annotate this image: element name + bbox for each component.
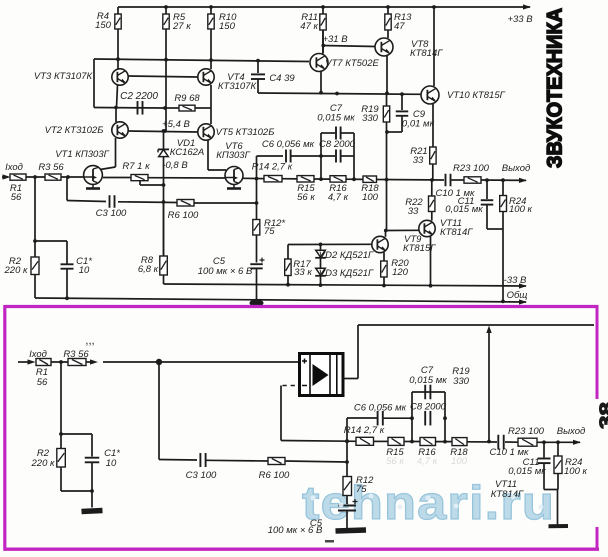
- node C2/VT2: [114, 106, 118, 110]
- capacitor C1: [61, 264, 74, 268]
- wire bus y93: [258, 93, 421, 94]
- ground VT1: [86, 185, 100, 189]
- svg-text:,,,: ,,,: [85, 335, 94, 347]
- svg-text:100 к: 100 к: [509, 204, 532, 215]
- svg-text:C2 2200: C2 2200: [120, 91, 158, 102]
- resistor R11: [322, 7, 324, 14]
- wire opamp output: [343, 378, 358, 380]
- svg-text:R14 2,7 к: R14 2,7 к: [252, 162, 293, 173]
- svg-text:56: 56: [37, 377, 48, 388]
- wire VT6 to R14: [243, 177, 264, 179]
- resistor R16: [330, 176, 346, 182]
- svg-text:C8 2000: C8 2000: [410, 402, 447, 413]
- node R24 bottom top: [556, 440, 560, 444]
- diode VD2: [320, 244, 322, 250]
- transistor VT1 jfet: [84, 166, 103, 185]
- svg-text:R6 100: R6 100: [168, 210, 199, 221]
- resistor R23: [464, 177, 481, 183]
- svg-text:100 мк × 6 В: 100 мк × 6 В: [268, 525, 323, 536]
- node R24 top: [501, 178, 505, 182]
- node R3/C3: [66, 175, 70, 179]
- resistor R14 bottom: [356, 437, 374, 445]
- wire R2 branch bottom: [60, 362, 62, 449]
- svg-text:56 к: 56 к: [297, 192, 315, 203]
- ground C5 bottom: [346, 511, 348, 529]
- capacitor C10: [446, 174, 451, 187]
- feedback arrow up: [486, 326, 491, 334]
- svg-text:0,01 мк: 0,01 мк: [402, 119, 435, 130]
- resistor R12: [253, 220, 260, 236]
- node VD1 junctions: [162, 129, 166, 133]
- resistor R4: [117, 7, 119, 14]
- svg-text:VT10 КТ815Г: VT10 КТ815Г: [447, 90, 506, 101]
- wire VT2-VT5 bus y131: [128, 131, 198, 132]
- wire VT5 emitter to VT6 gate: [207, 140, 209, 170]
- svg-text:Выход: Выход: [557, 426, 586, 437]
- svg-text:КТ814Г: КТ814Г: [410, 48, 443, 59]
- svg-text:Iход: Iход: [5, 162, 23, 173]
- wire feedback drop: [488, 331, 490, 442]
- wire C6 corner drop: [346, 418, 348, 477]
- svg-text:33: 33: [408, 206, 419, 217]
- svg-text:VT7 КТ502Е: VT7 КТ502Е: [325, 58, 379, 69]
- svg-text:C6 0,056 мк: C6 0,056 мк: [354, 403, 407, 414]
- node C11 top: [485, 178, 489, 182]
- wire feedback down: [158, 362, 160, 460]
- wire VT9 collector bus: [386, 180, 388, 231]
- resistor R18 bottom: [452, 438, 467, 446]
- wire VT3 collector to VT4 base: [128, 76, 198, 77]
- svg-text:4,7 к: 4,7 к: [417, 456, 438, 467]
- arrow -33V: [519, 283, 527, 288]
- wire VT7 emitter: [320, 72, 322, 93]
- wire VT1 to R7: [103, 177, 131, 179]
- wire input bottom: [18, 361, 30, 363]
- transistor VT10: [421, 86, 439, 104]
- svg-text:C3 100: C3 100: [186, 470, 217, 481]
- svg-text:220 к: 220 к: [4, 265, 28, 276]
- wire VT2 emitter to VT1: [115, 138, 117, 167]
- svg-text:0,015 мк: 0,015 мк: [508, 466, 546, 477]
- wire C1 branch: [35, 240, 67, 242]
- svg-text:-33 В: -33 В: [504, 275, 527, 286]
- transistor VT11: [419, 220, 435, 236]
- node R1/R2: [33, 175, 37, 179]
- svg-text:0,015 мк: 0,015 мк: [445, 204, 483, 215]
- resistor R15: [297, 176, 314, 182]
- svg-text:0,015 мк: 0,015 мк: [317, 113, 355, 124]
- wire main signal y177: [2, 176, 8, 178]
- svg-text:56 к: 56 к: [386, 456, 404, 467]
- node C11 bottom top: [542, 440, 546, 444]
- wire VT8 emitter: [386, 56, 388, 93]
- capacitor C6: [257, 155, 284, 157]
- transistor VT8: [375, 38, 393, 56]
- pink frame left edge: [3, 305, 6, 551]
- wire VT10 emitter: [432, 104, 434, 147]
- resistor R22: [431, 180, 433, 196]
- wire R2/C1 top link: [61, 433, 92, 435]
- svg-text:R23 100: R23 100: [453, 163, 490, 174]
- svg-text:КТ814Г: КТ814Г: [440, 227, 473, 238]
- capacitor C7: [321, 132, 335, 134]
- wire R8 top: [163, 203, 165, 256]
- wire R2/C1 bottom link: [61, 490, 92, 492]
- resistor R15 bottom: [388, 437, 404, 445]
- resistor R7: [131, 175, 148, 181]
- capacitor C4: [257, 61, 259, 73]
- node feedback tap: [156, 359, 162, 365]
- node rails C6: [410, 416, 414, 420]
- wire to opamp plus: [103, 361, 300, 363]
- resistor R6 bottom: [268, 458, 285, 465]
- transistor VT5: [198, 124, 214, 140]
- svg-text:100 к: 100 к: [564, 466, 587, 477]
- resistor R3: [45, 174, 61, 180]
- wire VT9 collector link: [385, 231, 387, 237]
- capacitor C9: [401, 94, 403, 110]
- wire +33V to VT10 collector: [433, 7, 435, 86]
- svg-text:ЗВУКОТЕХНИКА: ЗВУКОТЕХНИКА: [543, 8, 567, 168]
- resistor R12 bottom: [343, 477, 352, 496]
- output arrow top: [519, 178, 527, 183]
- capacitor C3: [67, 201, 106, 202]
- svg-text:Общ: Общ: [507, 290, 528, 301]
- svg-text:27 к: 27 к: [172, 21, 191, 32]
- wire VT7 collector: [322, 30, 324, 54]
- svg-text:R23 100: R23 100: [508, 426, 545, 437]
- ground output bottom: [557, 490, 559, 526]
- svg-text:150: 150: [219, 21, 236, 32]
- resistor R1: [10, 174, 26, 180]
- resistor R23 bottom: [518, 438, 537, 446]
- resistor R2 bottom: [57, 449, 66, 468]
- svg-text:220 к: 220 к: [31, 458, 55, 469]
- resistor R21: [430, 147, 436, 164]
- svg-text:150: 150: [95, 20, 112, 31]
- wire VT2 collector feed: [115, 108, 117, 123]
- capacitor C6 bottom: [347, 417, 377, 419]
- resistor R10: [210, 7, 212, 14]
- svg-text:0,015 мк: 0,015 мк: [409, 375, 447, 386]
- svg-text:10: 10: [106, 458, 117, 469]
- pink frame bottom edge: [4, 548, 600, 551]
- wire R12 branch: [256, 156, 258, 220]
- resistor R14: [264, 176, 282, 182]
- svg-text:C4 39: C4 39: [269, 73, 295, 84]
- wire +33V top rail: [118, 6, 530, 8]
- arrow common: [519, 299, 527, 304]
- node left cap rail: [319, 177, 323, 181]
- capacitor C8 bottom: [425, 411, 430, 426]
- resistor R24: [502, 180, 504, 195]
- node R21/R22: [430, 178, 434, 182]
- wire C3 branch: [66, 177, 68, 201]
- svg-text:R3 56: R3 56: [38, 162, 64, 173]
- node C6/C8: [319, 154, 323, 158]
- svg-text:R14 2,7 к: R14 2,7 к: [344, 425, 385, 436]
- wire C10 to R23: [452, 179, 465, 181]
- capacitor C2: [94, 107, 165, 110]
- capacitor C7 bottom: [412, 391, 445, 393]
- output arrow bottom: [573, 440, 581, 445]
- ground bottom input: [91, 491, 93, 508]
- capacitor C1 bottom: [91, 434, 93, 457]
- resistor R1 bottom: [36, 359, 51, 366]
- svg-text:47 к: 47 к: [300, 21, 318, 32]
- pink frame top edge: [5, 305, 599, 308]
- wire common rail: [35, 298, 526, 302]
- resistor R17: [287, 245, 289, 260]
- capacitor C8: [336, 150, 341, 163]
- resistor R3 bottom: [68, 359, 86, 366]
- node C5 to common blob: [250, 299, 264, 306]
- resistor R5: [165, 7, 167, 14]
- resistor R2: [31, 257, 39, 275]
- capacitor C3 bottom: [159, 459, 197, 462]
- wire R7 tap: [139, 181, 141, 185]
- node R6/R12 bottom: [345, 460, 349, 464]
- wire cap block rails: [320, 133, 322, 179]
- svg-text:КТ814Г: КТ814Г: [491, 489, 524, 500]
- wire bottom row: [347, 440, 356, 442]
- input arrow bottom: [28, 359, 36, 364]
- pink frame right edge lower: [596, 527, 599, 550]
- transistor VT3: [112, 69, 128, 85]
- transistor VT6 jfet: [225, 167, 243, 185]
- svg-text:+33 В: +33 В: [507, 14, 533, 25]
- svg-text:VT1 КП303Г: VT1 КП303Г: [55, 149, 109, 160]
- svg-text:VT2 КТ3102Б: VT2 КТ3102Б: [45, 125, 104, 136]
- svg-text:47: 47: [394, 21, 405, 32]
- wire upper bus y59: [94, 59, 309, 62]
- node right cap rail: [352, 177, 356, 181]
- resistor R16 bottom: [420, 438, 436, 446]
- svg-text:R6 100: R6 100: [259, 470, 290, 481]
- svg-text:VT3 КТ3107К: VT3 КТ3107К: [34, 71, 94, 82]
- svg-text:КТ815Г: КТ815Г: [403, 243, 436, 254]
- wire VT3 emitter: [117, 85, 118, 108]
- wire left drop to C2: [93, 59, 95, 108]
- svg-text:100: 100: [362, 192, 379, 203]
- capacitor C10 bottom: [498, 435, 503, 450]
- ground VT6: [227, 185, 241, 189]
- zener VD1: [163, 131, 165, 149]
- resistor R13: [387, 7, 389, 14]
- svg-text:+5,4 В: +5,4 В: [162, 119, 190, 130]
- svg-text:КП303Г: КП303Г: [216, 150, 250, 161]
- svg-text:56: 56: [11, 192, 22, 203]
- resistor R18: [363, 176, 377, 182]
- capacitor C11: [486, 180, 488, 199]
- svg-text:4,7 к: 4,7 к: [328, 192, 349, 203]
- op-amp U1: [300, 354, 344, 396]
- svg-text:R3 56: R3 56: [63, 349, 89, 360]
- wire VT7 base bus y45: [323, 46, 375, 47]
- diode VD3: [315, 268, 326, 276]
- pink frame right edge upper: [596, 306, 599, 400]
- svg-text:tehnari.ru: tehnari.ru: [302, 476, 555, 529]
- resistor R19: [386, 93, 388, 106]
- node rail junctions: [164, 5, 168, 9]
- svg-text:VD2 КД521Г: VD2 КД521Г: [319, 250, 374, 261]
- transistor VT4: [198, 69, 214, 85]
- svg-text:33 к: 33 к: [294, 267, 312, 278]
- svg-text:120: 120: [392, 267, 409, 278]
- svg-text:10: 10: [79, 265, 90, 276]
- capacitor C5 bottom: [338, 506, 356, 511]
- svg-text:C6 0,056 мк: C6 0,056 мк: [262, 139, 315, 150]
- svg-text:33: 33: [413, 155, 424, 166]
- watermark bolt details: [311, 494, 544, 510]
- wire opamp minus down: [280, 386, 282, 441]
- svg-text:-0,8 В: -0,8 В: [162, 160, 188, 171]
- wire R2 branch: [34, 177, 36, 257]
- input arrow: [3, 174, 11, 179]
- wire cap rails bottom: [411, 392, 413, 442]
- svg-text:100: 100: [451, 456, 468, 467]
- svg-text:Выход: Выход: [502, 163, 531, 174]
- wire VT11 emitter: [430, 237, 432, 286]
- scan mark bottom edge: [325, 540, 334, 543]
- wire opamp minus dashed: [283, 385, 298, 387]
- svg-text:C3 100: C3 100: [96, 208, 127, 219]
- node R6/R12: [255, 201, 259, 205]
- svg-text:C8 2000: C8 2000: [319, 139, 356, 150]
- svg-text:100 мк × 6 В: 100 мк × 6 В: [198, 266, 253, 277]
- svg-text:VT5 КТ3102Б: VT5 КТ3102Б: [216, 127, 275, 138]
- svg-text:330: 330: [362, 113, 379, 124]
- resistor R20: [383, 253, 385, 262]
- node C9/R19: [385, 130, 389, 134]
- resistor R9: [165, 107, 179, 109]
- wire -33V rail: [163, 275, 165, 284]
- capacitor C5 electrolytic: [250, 264, 263, 268]
- transistor VT2: [112, 122, 128, 138]
- svg-text:6,8 к: 6,8 к: [138, 264, 159, 275]
- node R19 bottom: [385, 178, 389, 182]
- svg-text:38: 38: [597, 402, 608, 429]
- svg-text:R9 68: R9 68: [174, 93, 200, 104]
- transistor VT7: [310, 54, 328, 72]
- svg-text:75: 75: [264, 226, 275, 237]
- svg-text:+31 В: +31 В: [322, 34, 348, 45]
- svg-text:75: 75: [356, 484, 367, 495]
- mid arrow bottom: [90, 359, 98, 364]
- svg-text:VD3 КД521Г: VD3 КД521Г: [319, 268, 374, 279]
- transistor VT9: [372, 236, 388, 252]
- capacitor C11 bottom: [543, 442, 545, 457]
- resistor R8: [160, 256, 168, 275]
- svg-text:R7 1 к: R7 1 к: [122, 161, 150, 172]
- svg-text:КТ3107К: КТ3107К: [218, 81, 258, 92]
- resistor R24 bottom: [557, 442, 559, 456]
- wire VT9 base: [288, 243, 372, 245]
- svg-text:330: 330: [453, 376, 470, 387]
- resistor R6: [177, 200, 194, 207]
- svg-text:КС162А: КС162А: [170, 147, 205, 158]
